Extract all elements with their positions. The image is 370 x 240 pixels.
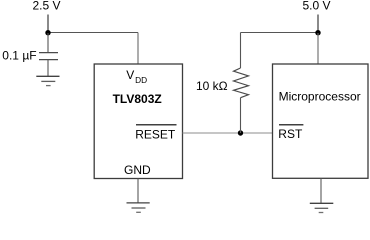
node C junction dot [315,30,320,35]
svg-text:RESET: RESET [135,128,176,142]
ground (below U1) [127,203,150,212]
svg-text:5.0 V: 5.0 V [303,0,331,13]
ground (below U2) [310,203,334,212]
wire node-C to resistor [241,32,319,34]
wire node-A to VDD [48,32,138,34]
node A junction dot [45,30,50,35]
wire node-A to capacitor [47,33,49,53]
microprocessor U2 box [273,64,369,178]
capacitor C1 0.1 uF [39,53,58,60]
wire 2.5V lead [47,15,49,34]
resistor R1 10 kOhm [234,68,249,98]
svg-text:GND: GND [124,163,151,177]
pin label RESET (active low) [135,125,176,142]
svg-text:0.1 µF: 0.1 µF [2,49,36,63]
ground (left, below C1) [36,76,59,85]
svg-text:RST: RST [278,127,303,141]
wire resistor top lead [240,33,242,69]
wire VDD drop [137,33,139,65]
wire GND lead [137,179,139,203]
pin label RST (active low) [278,125,303,141]
svg-text:10 kΩ: 10 kΩ [196,79,228,93]
wire RESET to RST [183,132,273,134]
svg-text:2.5 V: 2.5 V [33,0,61,13]
wire 5.0V lead [317,15,319,34]
wire capacitor to ground [47,60,49,77]
svg-text:Microprocessor: Microprocessor [279,89,361,103]
node B junction dot [238,130,243,135]
wire microprocessor ground lead [320,178,322,203]
svg-text:V: V [126,68,134,82]
wire 5.0V into microprocessor [317,33,319,64]
op-amp U1 TLV803Z box [94,64,182,179]
svg-text:DD: DD [135,75,147,85]
wire resistor bottom lead [240,98,242,133]
svg-text:TLV803Z: TLV803Z [113,92,162,106]
pin label VDD [126,68,147,85]
